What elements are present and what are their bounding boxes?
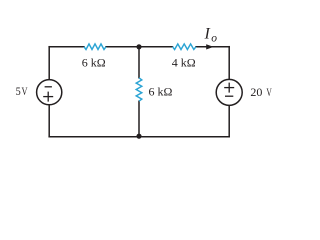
svg-text:20: 20 (250, 85, 262, 99)
svg-text:6 kΩ: 6 kΩ (149, 84, 173, 98)
svg-text:6 kΩ: 6 kΩ (82, 55, 106, 69)
svg-text:I: I (204, 26, 211, 43)
svg-text:5: 5 (16, 85, 21, 98)
svg-text:V: V (22, 86, 28, 99)
svg-text:4 kΩ: 4 kΩ (172, 55, 196, 69)
svg-text:o: o (211, 33, 217, 45)
svg-text:V: V (266, 86, 272, 99)
